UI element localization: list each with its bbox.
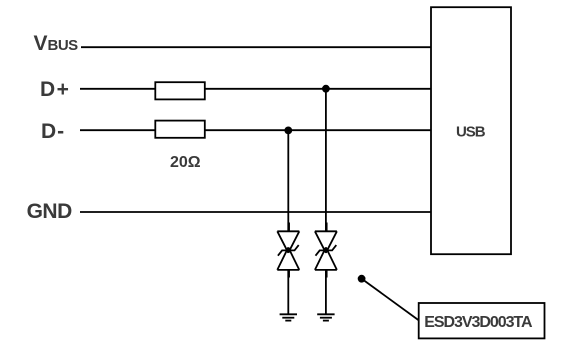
svg-text:D-: D-: [41, 120, 64, 143]
svg-text:USB: USB: [456, 123, 486, 140]
svg-text:GND: GND: [27, 200, 73, 223]
svg-text:20Ω: 20Ω: [170, 154, 201, 171]
svg-text:D+: D+: [40, 78, 69, 101]
svg-text:ESD3V3D003TA: ESD3V3D003TA: [424, 314, 533, 331]
